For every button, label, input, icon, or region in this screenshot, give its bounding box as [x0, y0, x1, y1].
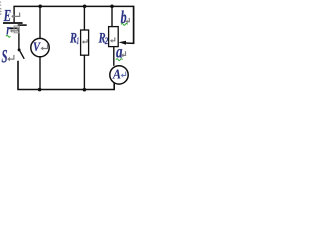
rheostat R2 slider arrowhead — [119, 41, 126, 45]
svg-text:r: r — [6, 22, 11, 39]
pilcrow arrow after S — [9, 55, 14, 59]
pilcrow box artifact after r — [14, 26, 19, 33]
squiggle under b — [121, 24, 128, 26]
switch S blade — [20, 51, 24, 59]
pilcrow arrow inside R1 box — [83, 39, 87, 42]
pilcrow arrow after V — [42, 44, 47, 48]
battery short plate — [9, 27, 19, 29]
ammeter A circle — [110, 66, 128, 84]
svg-text:V: V — [33, 39, 41, 54]
wire right edge down to slider line — [133, 6, 135, 44]
wire voltmeter lower lead — [39, 57, 41, 90]
left margin artifact dots — [0, 2, 1, 15]
wire battery to switch — [18, 29, 20, 49]
pilcrow arrow after E — [13, 13, 19, 17]
pilcrow arrow inside R2 box — [112, 37, 115, 40]
wire R1 lower lead — [83, 55, 85, 89]
pilcrow arrow after A — [123, 72, 126, 76]
svg-text:2: 2 — [104, 36, 109, 46]
node bottom junction voltmeter branch — [38, 88, 42, 92]
rheostat R2 box — [109, 27, 119, 47]
node top junction R2 branch — [110, 5, 114, 9]
wire voltmeter upper lead — [39, 6, 41, 38]
resistor R1 box — [81, 30, 89, 55]
voltmeter V circle — [31, 38, 49, 56]
switch S pivot dot — [18, 48, 21, 51]
wire R2 upper lead — [111, 6, 113, 26]
svg-text:S: S — [2, 47, 8, 67]
wire battery top lead — [13, 6, 15, 22]
svg-text:1: 1 — [77, 36, 79, 46]
wire switch to bottom-left corner and bottom wire and stub up to ammeter — [18, 61, 114, 90]
pilcrow arrow after b — [127, 18, 130, 22]
node top junction voltmeter branch — [38, 5, 42, 9]
squiggle under a — [116, 59, 123, 61]
svg-text:A: A — [112, 67, 121, 82]
battery long plate — [3, 22, 23, 24]
wire R1 upper lead — [83, 6, 85, 30]
wire slider horizontal from right edge toward R2 — [125, 42, 134, 44]
battery extra plate bar — [18, 24, 27, 26]
wire R2 lower lead to ammeter — [113, 47, 115, 66]
wire top horizontal — [13, 5, 133, 7]
node bottom junction R1 branch — [83, 88, 87, 92]
node top junction R1 branch — [83, 5, 87, 9]
squiggle under r — [6, 35, 10, 37]
pilcrow arrow after a — [123, 51, 126, 55]
